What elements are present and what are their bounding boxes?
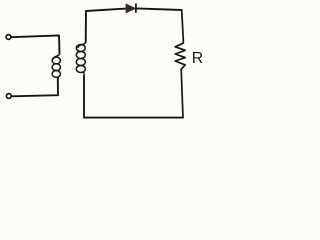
svg-text:R: R bbox=[192, 50, 203, 67]
